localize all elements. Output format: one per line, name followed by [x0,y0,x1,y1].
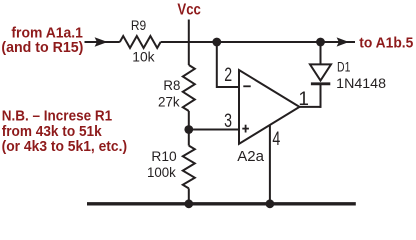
junction dot: R9/pin2 [212,38,221,47]
wire: diode branch vertical [320,42,322,64]
wire: main top signal wire left segment [85,41,120,43]
svg-text:(and to R15): (and to R15) [1,39,83,56]
diode D1 [310,64,331,80]
input arrowhead [95,37,108,47]
resistor R10 [183,146,195,189]
svg-text:to A1b.5: to A1b.5 [359,35,413,52]
wire: pin2 branch vertical [217,42,240,87]
wire: pin 4 drop [269,125,271,204]
svg-text:D1: D1 [337,58,351,74]
plus symbol [242,128,249,130]
wire: R8 bottom lead [188,111,190,130]
svg-text:R9: R9 [131,17,146,33]
svg-text:R10: R10 [151,148,177,164]
wire: R10 top lead [188,130,190,146]
output arrowhead [337,37,349,46]
svg-text:3: 3 [224,111,232,132]
wire: pin3 wire [189,129,240,131]
svg-text:Vcc: Vcc [177,1,201,18]
junction dot: R10/rail [184,199,193,208]
resistor R9 [120,36,161,48]
wire: R10 bottom lead [188,188,190,203]
svg-text:1N4148: 1N4148 [336,75,386,91]
minus symbol [243,85,250,87]
svg-text:4: 4 [272,129,280,150]
svg-text:27k: 27k [158,94,181,110]
wire: Vcc drop [188,20,190,66]
svg-text:A2a: A2a [237,148,264,165]
svg-text:(or 4k3 to 5k1, etc.): (or 4k3 to 5k1, etc.) [2,138,128,155]
wire: output wire [300,106,321,108]
junction dot: diode/output [316,38,325,47]
ground rail [87,202,356,205]
diode D1 cathode bar [311,82,330,85]
svg-text:100k: 100k [147,164,177,180]
svg-text:10k: 10k [132,49,155,65]
wire: main top signal wire right segment [161,41,355,43]
svg-text:R8: R8 [163,77,180,93]
wire: diode cathode lead [320,84,322,108]
op-amp A2a [239,70,300,144]
junction dot: pin4/rail [266,199,275,208]
svg-text:2: 2 [224,65,232,86]
junction dot: R8/R10/pin3 [184,125,193,134]
resistor R8 [183,65,195,111]
